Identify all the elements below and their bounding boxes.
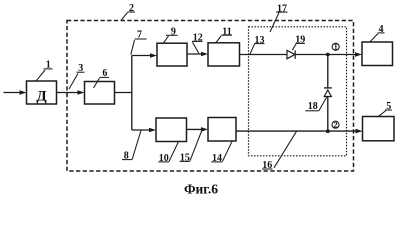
svg-text:4: 4 [379,24,384,35]
svg-text:8: 8 [124,151,129,162]
svg-text:11: 11 [222,27,231,38]
svg-text:1: 1 [46,60,51,71]
svg-text:5: 5 [386,101,391,112]
svg-text:1: 1 [334,43,338,52]
svg-text:15: 15 [180,153,190,164]
svg-text:17: 17 [277,3,287,14]
svg-text:7: 7 [137,30,142,41]
svg-text:14: 14 [212,153,222,164]
svg-text:2: 2 [129,3,134,14]
svg-text:18: 18 [308,101,318,112]
svg-text:9: 9 [171,27,176,38]
svg-text:6: 6 [102,68,107,79]
svg-text:Д: Д [36,89,47,105]
svg-text:10: 10 [159,153,169,164]
svg-text:16: 16 [262,160,272,171]
svg-text:3: 3 [78,63,83,74]
svg-text:2: 2 [334,120,338,129]
svg-text:13: 13 [255,35,265,46]
svg-text:12: 12 [193,33,203,44]
svg-text:Фиг.6: Фиг.6 [184,182,218,197]
svg-text:19: 19 [295,35,305,46]
